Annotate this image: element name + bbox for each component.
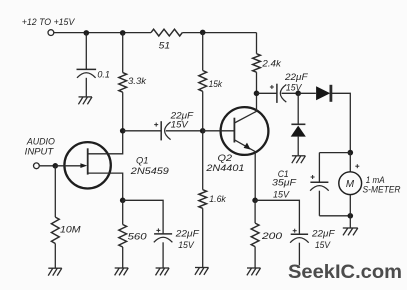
wire 1.6k to ground xyxy=(202,208,204,267)
Q2 collector wire xyxy=(234,93,256,123)
svg-text:3.3k: 3.3k xyxy=(128,76,147,86)
resistor 10M xyxy=(51,217,59,243)
wire 560 to ground xyxy=(122,247,124,268)
resistor 1.6k xyxy=(199,190,207,209)
Q2 base wire xyxy=(203,130,235,132)
wire meter loop top xyxy=(319,152,350,154)
wire coupling cap to D2 node xyxy=(282,92,299,94)
ground under 200 xyxy=(247,267,261,269)
junction Q2 base node xyxy=(200,128,206,134)
capacitor 22uF emitter bypass xyxy=(291,233,308,235)
wire gate node down xyxy=(54,166,56,217)
junction top rail at 15k branch xyxy=(200,30,206,36)
svg-text:INPUT: INPUT xyxy=(25,146,55,157)
svg-text:2N5459: 2N5459 xyxy=(130,165,170,176)
power terminal +12 TO +15V xyxy=(48,30,54,36)
wire D2 to ground xyxy=(297,137,299,156)
svg-text:15V: 15V xyxy=(171,120,189,130)
junction D2 node xyxy=(295,91,301,97)
wire 3.3k bottom xyxy=(122,92,124,131)
wire meter node to ground xyxy=(349,216,351,228)
diode D2 xyxy=(291,123,305,125)
junction gate node xyxy=(53,163,59,169)
wire input to gate node xyxy=(39,165,55,167)
svg-text:15V: 15V xyxy=(273,190,290,200)
capacitor 22uF coupling Q1-Q2 xyxy=(160,121,162,140)
resistor 15k xyxy=(199,71,207,92)
wire bypass cap to ground xyxy=(162,242,164,267)
svg-text:0.1: 0.1 xyxy=(97,70,110,80)
ground under 1.6k xyxy=(195,267,209,269)
ground under 0.1 xyxy=(79,96,93,98)
svg-text:10M: 10M xyxy=(60,223,81,234)
wire emitter node to 200 xyxy=(254,200,256,223)
Q1 source wire xyxy=(88,173,123,200)
resistor 15k wires xyxy=(202,33,204,71)
wire emitter bypass to ground xyxy=(298,243,300,266)
wire 3.3k top xyxy=(122,33,124,73)
Q1 gate wire with arrow xyxy=(55,165,81,167)
wire meter bottom lead xyxy=(349,195,351,216)
svg-text:51: 51 xyxy=(159,40,171,50)
capacitor 22uF detector coupling xyxy=(276,84,278,103)
capacitor 22uF source bypass xyxy=(154,233,172,235)
junction Q2 collector node xyxy=(254,91,260,97)
Q2 base bar xyxy=(233,118,235,143)
meter plus mark xyxy=(355,165,359,167)
wire 2.4k to collector node xyxy=(256,72,258,93)
svg-text:2.4k: 2.4k xyxy=(261,58,282,68)
ground under 10M xyxy=(48,267,62,269)
wire top rail left xyxy=(54,32,151,34)
ground under source bypass xyxy=(156,267,170,269)
wire coupling cap to base node xyxy=(166,130,203,132)
svg-text:22μF: 22μF xyxy=(284,72,309,82)
svg-text:S-METER: S-METER xyxy=(363,184,401,194)
ground under 560 xyxy=(115,267,129,269)
wire D1 to meter column xyxy=(330,93,350,152)
junction Q1 source node xyxy=(120,198,126,204)
Q1 drain wire xyxy=(88,133,123,154)
svg-text:M: M xyxy=(346,179,355,190)
wire collector node to coupling cap xyxy=(257,92,277,94)
resistor 51 xyxy=(151,29,182,36)
resistor 2.4k xyxy=(253,54,261,72)
wire source node to 560 xyxy=(122,200,124,224)
svg-text:2N4401: 2N4401 xyxy=(205,162,244,173)
svg-text:22μF: 22μF xyxy=(311,229,336,239)
svg-text:35μF: 35μF xyxy=(272,177,297,187)
svg-text:1 mA: 1 mA xyxy=(366,175,385,185)
wire C1 branch top xyxy=(318,153,320,183)
resistor 200 xyxy=(251,223,259,247)
resistor 3.3k xyxy=(119,73,127,93)
wire emitter node to bypass cap xyxy=(255,200,299,234)
Q2 emitter wire with arrow xyxy=(234,140,255,201)
wire meter top lead xyxy=(349,153,351,172)
junction meter bottom node xyxy=(348,213,354,219)
wire C1 branch bottom xyxy=(318,191,320,216)
ground under D2 xyxy=(292,155,306,157)
wire meter loop bottom xyxy=(319,215,350,217)
junction Q1 drain node xyxy=(120,128,126,134)
meter M1 circle xyxy=(339,172,362,195)
wire 0.1uF branch xyxy=(85,33,87,70)
wire D2 node down xyxy=(297,93,299,124)
diode D1 xyxy=(316,86,330,100)
wire base node down xyxy=(202,131,204,190)
Q1 channel bar xyxy=(87,148,89,174)
svg-text:15V: 15V xyxy=(178,240,194,250)
junction top rail at 3.3k branch xyxy=(120,30,126,36)
capacitor C1 35uF xyxy=(310,181,328,183)
svg-text:1.6k: 1.6k xyxy=(209,194,227,204)
capacitor 0.1 xyxy=(77,68,97,70)
ground under meter xyxy=(343,227,358,229)
wire top rail corner to 2.4k xyxy=(256,33,258,54)
wire D2 node to D1 xyxy=(298,92,316,94)
transistor Q1 circle xyxy=(64,142,110,188)
svg-text:SeekIC.com: SeekIC.com xyxy=(288,261,402,283)
transistor Q2 circle xyxy=(221,107,269,155)
input terminal AUDIO INPUT xyxy=(34,163,40,169)
svg-text:15k: 15k xyxy=(209,79,224,89)
svg-text:200: 200 xyxy=(261,230,283,241)
wire top rail right xyxy=(182,32,256,34)
junction top rail at 0.1uF branch xyxy=(84,30,90,36)
svg-text:15V: 15V xyxy=(315,240,331,250)
wire source node to bypass cap xyxy=(123,200,163,234)
resistor 560 xyxy=(119,225,127,248)
junction meter top node xyxy=(348,150,354,156)
wire 200 to ground xyxy=(254,247,256,268)
svg-text:+12 TO +15V: +12 TO +15V xyxy=(22,17,76,28)
svg-text:15V: 15V xyxy=(286,82,302,92)
wire drain node to coupling cap xyxy=(123,130,162,132)
svg-text:22μF: 22μF xyxy=(175,229,201,239)
wire 10M to ground xyxy=(54,244,56,269)
svg-text:560: 560 xyxy=(128,230,148,241)
junction Q2 emitter node xyxy=(252,198,258,204)
